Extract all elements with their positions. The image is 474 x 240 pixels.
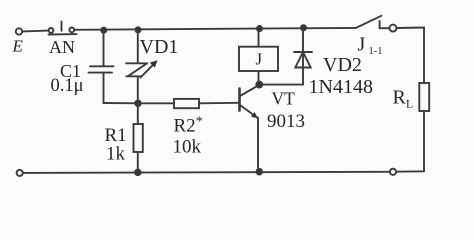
terminal E [16,28,22,34]
wire switch to corner [397,28,425,84]
wire C1 to node [104,102,139,104]
svg-text:E: E [12,37,24,56]
resistor RL [419,83,429,171]
wire top rail [74,28,356,30]
svg-text:VT: VT [272,89,296,109]
svg-text:VD1: VD1 [140,36,179,58]
node top-VD1 [135,27,140,32]
resistor R2 [138,99,239,108]
svg-text:VD2: VD2 [323,54,362,76]
svg-text:1k: 1k [106,144,126,165]
svg-text:1N4148: 1N4148 [309,76,373,98]
svg-text:J: J [358,34,366,56]
resistor R1 [134,103,143,172]
node mid junction [135,101,141,107]
svg-text:0.1μ: 0.1μ [51,76,84,96]
svg-text:J: J [256,49,263,68]
svg-text:AN: AN [49,37,75,57]
wire E to AN [22,30,48,33]
capacitor C1 [89,30,114,103]
svg-text:1-1: 1-1 [369,46,383,57]
relay coil J [239,29,278,85]
terminal bottom-right [390,169,396,175]
node top-VD2 [301,25,306,30]
node top-C1 [101,28,106,33]
transistor VT [240,85,260,172]
terminal bottom-left [17,170,23,176]
svg-text:10k: 10k [173,137,202,158]
svg-text:R2*: R2* [174,115,203,137]
diode VD1 [126,30,158,103]
diode VD2 [259,28,312,85]
wire bottom rail [23,172,390,173]
switch J1-1 [356,16,397,32]
switch AN [49,22,77,35]
svg-text:9013: 9013 [267,111,305,132]
node top-J [257,26,262,31]
node bottom-R1 [135,170,141,176]
node collector junction [256,82,262,88]
node bottom-emitter [257,169,263,175]
svg-text:RL: RL [393,87,414,111]
wire bottom right [396,170,424,172]
